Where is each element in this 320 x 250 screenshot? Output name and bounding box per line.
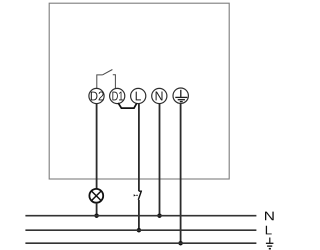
label N [265,212,274,221]
wire switch to L bus [138,200,140,230]
junction dot PE-earth bus [178,241,183,246]
junction dot switch-L bus [137,228,142,233]
relay contact (internal switch between D2 and D1) [97,70,116,89]
wire L terminal to switch [138,104,140,192]
jumper D1-L [118,103,137,108]
terminal L [131,88,146,103]
earth bus line [25,242,256,244]
terminal D1 [110,88,125,103]
terminal D2 [89,88,104,103]
L bus line [25,229,256,231]
ground symbol (earth) [266,238,274,249]
wire lamp to N bus [96,203,98,216]
terminal N [152,88,167,103]
label L [266,226,272,235]
wire D2 terminal to lamp [96,104,98,190]
lamp E1 [89,189,103,203]
N bus line [25,215,256,217]
terminal PE earth [173,88,188,103]
junction dot lamp-N bus [94,213,99,218]
device box (dimmer/actuator enclosure) [49,3,229,179]
switch S1 (pushbutton) [134,191,142,200]
junction dot N terminal-N bus [157,213,162,218]
wire N terminal to N bus [159,104,161,216]
wire PE terminal to earth bus [180,103,182,243]
